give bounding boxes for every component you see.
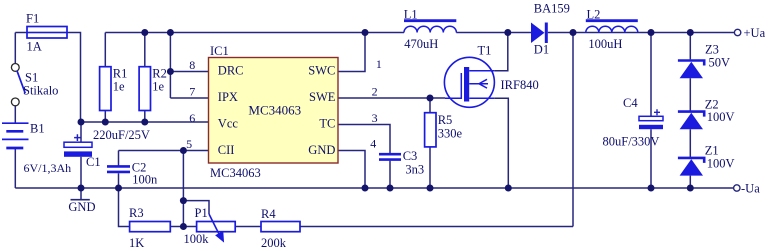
- svg-text:C1: C1: [86, 155, 101, 169]
- svg-text:D1: D1: [534, 42, 549, 56]
- svg-text:4: 4: [370, 137, 376, 151]
- svg-text:1e: 1e: [152, 80, 164, 94]
- svg-text:Z2: Z2: [705, 97, 719, 111]
- svg-text:C3: C3: [403, 149, 418, 163]
- svg-text:R2: R2: [152, 67, 167, 81]
- svg-text:80uF/330V: 80uF/330V: [603, 135, 660, 149]
- svg-text:T1: T1: [478, 44, 492, 58]
- svg-text:GND: GND: [68, 200, 95, 214]
- svg-text:F1: F1: [26, 11, 39, 25]
- svg-text:2: 2: [372, 85, 378, 99]
- svg-text:100V: 100V: [707, 156, 735, 170]
- svg-text:R1: R1: [113, 67, 128, 81]
- svg-text:SWE: SWE: [309, 90, 336, 104]
- svg-text:MC34063: MC34063: [248, 103, 301, 118]
- svg-text:6: 6: [189, 111, 195, 125]
- svg-text:TC: TC: [319, 116, 335, 130]
- svg-text:3: 3: [372, 111, 378, 125]
- svg-text:1K: 1K: [129, 236, 144, 250]
- svg-text:R3: R3: [129, 206, 144, 220]
- svg-text:Z1: Z1: [705, 143, 719, 157]
- svg-text:IC1: IC1: [210, 44, 229, 58]
- svg-text:R5: R5: [438, 113, 453, 127]
- svg-text:IPX: IPX: [218, 90, 238, 104]
- svg-text:S1: S1: [25, 70, 38, 84]
- svg-text:B1: B1: [30, 122, 45, 136]
- svg-text:8: 8: [189, 58, 195, 72]
- svg-text:L2: L2: [587, 7, 601, 21]
- svg-text:CII: CII: [218, 143, 235, 157]
- svg-text:-Ua: -Ua: [741, 182, 760, 196]
- svg-text:200k: 200k: [261, 236, 287, 250]
- svg-text:C4: C4: [623, 96, 638, 110]
- svg-text:L1: L1: [404, 7, 418, 21]
- svg-text:BA159: BA159: [534, 2, 570, 16]
- svg-text:MC34063: MC34063: [210, 166, 261, 180]
- svg-text:DRC: DRC: [218, 64, 244, 78]
- svg-text:5: 5: [186, 137, 192, 151]
- svg-text:1: 1: [376, 57, 382, 71]
- svg-text:1A: 1A: [27, 40, 42, 54]
- svg-text:3n3: 3n3: [405, 163, 424, 177]
- svg-text:220uF/25V: 220uF/25V: [93, 128, 150, 142]
- svg-text:Z3: Z3: [705, 42, 719, 56]
- svg-text:1e: 1e: [113, 80, 125, 94]
- svg-text:R4: R4: [261, 207, 276, 221]
- svg-text:330e: 330e: [438, 127, 463, 141]
- svg-text:GND: GND: [308, 143, 335, 157]
- svg-text:Vcc: Vcc: [218, 116, 239, 130]
- svg-text:50V: 50V: [709, 55, 731, 69]
- svg-text:P1: P1: [195, 206, 208, 220]
- svg-text:IRF840: IRF840: [501, 78, 539, 92]
- svg-text:100V: 100V: [707, 110, 735, 124]
- svg-text:100uH: 100uH: [588, 37, 622, 51]
- svg-text:6V/1,3Ah: 6V/1,3Ah: [24, 161, 72, 175]
- svg-text:+Ua: +Ua: [744, 26, 766, 40]
- svg-text:100n: 100n: [132, 172, 158, 186]
- svg-text:470uH: 470uH: [404, 37, 438, 51]
- svg-text:SWC: SWC: [308, 64, 335, 78]
- svg-text:100k: 100k: [184, 232, 210, 246]
- svg-text:7: 7: [189, 84, 195, 98]
- svg-text:Stikalo: Stikalo: [23, 83, 58, 97]
